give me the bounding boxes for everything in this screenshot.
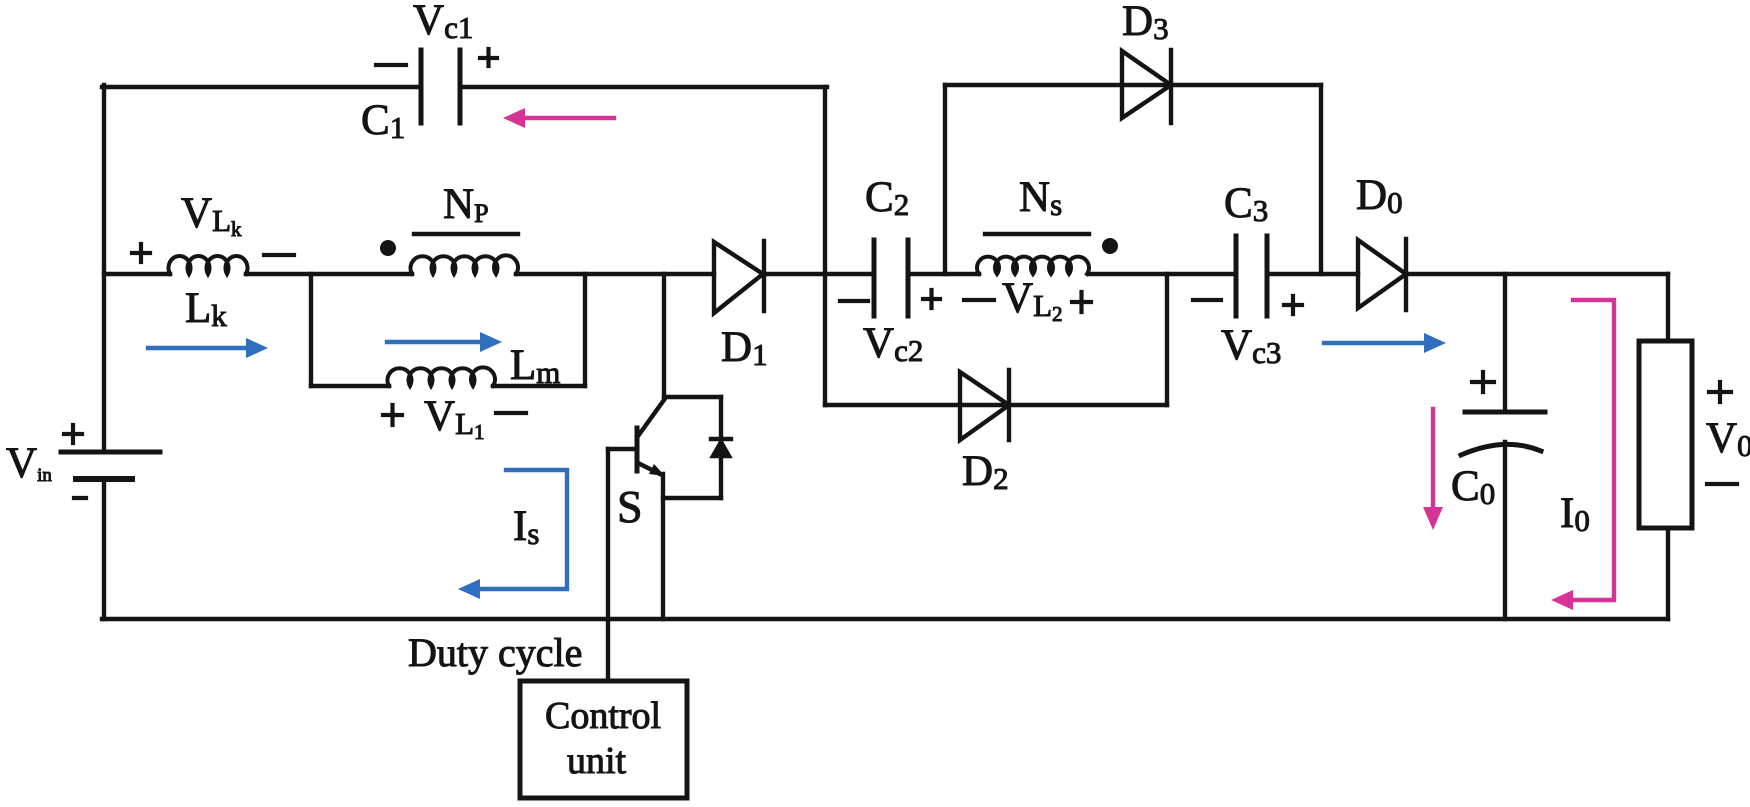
- arrow blue Lm current: [387, 332, 502, 352]
- arrow blue Lk current: [148, 338, 268, 358]
- capacitor C0 bottom wire: [1503, 442, 1507, 619]
- wire D2 branch horizontal: [825, 403, 1167, 407]
- wire main bus segment G: [1267, 272, 1358, 276]
- sign minus of VL2: [964, 298, 994, 302]
- svg-text:C0: C0: [1451, 463, 1495, 511]
- wire top bus right of C1: [460, 85, 827, 89]
- svg-text:Vc1: Vc1: [413, 0, 473, 45]
- sign minus of V0: [1707, 482, 1737, 486]
- sign plus of VL1: [383, 405, 402, 425]
- sign plus of C2: [923, 290, 940, 308]
- wire load bottom vertical: [1666, 528, 1670, 619]
- sign plus of V0: [1709, 382, 1731, 402]
- wire left vertical upper: [102, 85, 106, 451]
- transformer Ns core bar: [985, 232, 1089, 236]
- wire Lm branch right vertical: [583, 274, 587, 386]
- wire vertical right of D3: [1319, 85, 1323, 274]
- wire vertical at node between D1 and C2: [823, 87, 827, 405]
- wire antiparallel diode box top: [664, 395, 721, 399]
- svg-text:Control: Control: [545, 695, 661, 737]
- capacitor C0 flat plate: [1465, 410, 1545, 415]
- wire main bus segment E: [908, 272, 979, 276]
- capacitor C2: [874, 240, 908, 316]
- resistor load R: [1639, 341, 1692, 528]
- arrow blue Is loop: [458, 470, 567, 599]
- wire Lm branch bottom left: [311, 384, 389, 388]
- wire main bus segment D: [763, 272, 874, 276]
- svg-text:Lm: Lm: [510, 342, 560, 390]
- svg-text:D1: D1: [721, 324, 768, 372]
- arrow pink C0 current down: [1423, 409, 1443, 530]
- svg-text:Lk: Lk: [185, 285, 227, 333]
- svg-text:V0: V0: [1706, 415, 1750, 463]
- battery Vin plate short: [76, 476, 132, 482]
- svg-text:Ns: Ns: [1019, 174, 1062, 222]
- wire main bus segment H: [1406, 272, 1668, 276]
- arrow blue output current after D0: [1324, 333, 1446, 353]
- wire switch gate lead down to control unit: [606, 449, 610, 681]
- svg-text:VL2: VL2: [1002, 275, 1063, 326]
- sign plus of C3: [1284, 296, 1302, 314]
- svg-text:Vc2: Vc2: [863, 320, 923, 368]
- svg-text:S: S: [617, 481, 643, 532]
- svg-text:D3: D3: [1122, 0, 1169, 46]
- control unit box: [520, 681, 687, 798]
- wire main bus segment A: [104, 272, 170, 276]
- arrow pink C1 current: [503, 108, 614, 128]
- sign plus of VL2: [1072, 292, 1091, 312]
- svg-text:Vc3: Vc3: [1221, 322, 1281, 370]
- capacitor C3: [1236, 236, 1267, 316]
- svg-text:Vin: Vin: [6, 440, 52, 487]
- svg-text:VL1: VL1: [424, 393, 485, 444]
- sign plus of VLk: [132, 244, 150, 262]
- transformer Np core bar: [414, 232, 518, 236]
- wire main bus segment C: [516, 272, 714, 276]
- inductor Lm coil: [388, 367, 496, 386]
- diode D3: [1122, 50, 1171, 123]
- svg-text:C1: C1: [361, 97, 405, 145]
- diode D0: [1358, 239, 1406, 310]
- arrow pink I0 loop: [1551, 300, 1614, 610]
- transistor S (IGBT): [608, 400, 665, 476]
- diode antiparallel of S: [711, 439, 731, 456]
- wire main bus segment B: [246, 272, 412, 276]
- svg-text:NP: NP: [443, 181, 489, 228]
- svg-text:Is: Is: [513, 503, 539, 551]
- wire bottom bus: [102, 617, 1668, 621]
- svg-text:D2: D2: [962, 448, 1009, 496]
- svg-text:unit: unit: [567, 740, 627, 782]
- sign minus of C2: [840, 299, 868, 303]
- battery Vin plate long: [61, 450, 160, 455]
- wire antiparallel diode box right: [719, 397, 723, 498]
- transformer Ns coil: [977, 257, 1089, 274]
- transformer Np coil: [411, 255, 518, 274]
- svg-text:VLk: VLk: [181, 190, 242, 241]
- diode D2: [960, 370, 1009, 440]
- wire top bus left of C1: [102, 85, 421, 89]
- svg-text:Duty cycle: Duty cycle: [408, 630, 582, 675]
- wire load top vertical: [1666, 274, 1670, 341]
- svg-text:I0: I0: [1560, 490, 1590, 538]
- capacitor C0 curved plate: [1461, 444, 1541, 455]
- sign minus of VL1: [496, 411, 526, 415]
- wire left vertical lower: [102, 481, 106, 619]
- wire Lm branch bottom right: [493, 384, 585, 388]
- sign minus of C1: [376, 63, 406, 67]
- inductor Lk coil: [169, 256, 248, 274]
- sign minus of Vin: [74, 496, 86, 500]
- sign plus of Vin: [64, 425, 82, 443]
- capacitor C0 top wire: [1503, 274, 1507, 411]
- transformer dot primary: [380, 240, 396, 256]
- wire vertical right of D2 branch: [1165, 274, 1169, 405]
- wire D3 branch top: [945, 83, 1321, 87]
- svg-text:C3: C3: [1224, 180, 1268, 228]
- wire Lm branch left vertical: [309, 274, 313, 386]
- sign minus of C3: [1193, 298, 1221, 302]
- sign minus of VLk: [264, 253, 294, 257]
- sign plus of C0: [1472, 372, 1494, 392]
- wire antiparallel diode box bottom: [663, 496, 721, 500]
- wire switch emitter vertical: [661, 474, 665, 619]
- svg-text:D0: D0: [1356, 172, 1403, 220]
- transformer dot secondary: [1102, 238, 1118, 254]
- wire main bus segment F: [1089, 272, 1236, 276]
- diode D1: [714, 241, 764, 313]
- wire vertical left of D3: [943, 85, 947, 274]
- capacitor C1: [421, 50, 460, 123]
- sign plus of C1: [480, 49, 497, 66]
- wire switch collector vertical: [662, 274, 666, 397]
- svg-text:C2: C2: [865, 174, 909, 222]
